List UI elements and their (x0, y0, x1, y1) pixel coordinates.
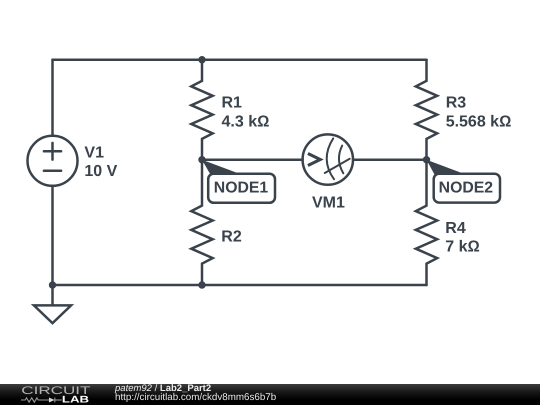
svg-text:R4: R4 (445, 220, 466, 237)
svg-text:R2: R2 (221, 228, 242, 245)
svg-text:R3: R3 (446, 95, 467, 112)
svg-text:VM1: VM1 (312, 195, 345, 212)
svg-text:7 kΩ: 7 kΩ (445, 239, 480, 256)
svg-text:4.3 kΩ: 4.3 kΩ (222, 113, 270, 130)
svg-text:R1: R1 (222, 94, 243, 111)
svg-text:LAB: LAB (62, 395, 89, 405)
svg-text:V1: V1 (84, 144, 104, 161)
svg-text:10 V: 10 V (84, 163, 117, 180)
svg-text:NODE2: NODE2 (439, 180, 494, 197)
svg-text:5.568 kΩ: 5.568 kΩ (446, 114, 512, 131)
svg-text:NODE1: NODE1 (214, 180, 269, 197)
